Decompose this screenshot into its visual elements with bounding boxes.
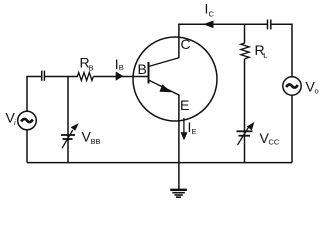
capacitor C2 (output coupling)	[268, 20, 271, 30]
battery VBB (variable)	[61, 123, 101, 148]
wire: top rail collector to capacitor C2	[178, 23, 267, 25]
transistor Q1	[133, 24, 217, 121]
source Vi	[6, 110, 37, 130]
svg-text:C: C	[181, 36, 191, 52]
svg-text:L: L	[263, 51, 267, 60]
wire: top-left horizontal to capacitor	[26, 76, 41, 78]
svg-text:B: B	[138, 61, 147, 77]
svg-text:BB: BB	[91, 137, 101, 146]
source Vo	[283, 77, 319, 96]
capacitor C1 (input coupling)	[42, 71, 45, 81]
wire: left vertical lower segment	[26, 130, 28, 163]
ground	[170, 163, 187, 198]
svg-text:C: C	[209, 10, 215, 19]
resistor RB	[77, 55, 93, 81]
resistor RL	[241, 42, 268, 60]
wire: capacitor C2 to right corner	[271, 24, 292, 77]
battery VCC (variable)	[237, 122, 280, 147]
wire: RL branch top	[244, 24, 246, 43]
svg-text:CC: CC	[269, 138, 280, 147]
wire: emitter vertical to bottom rail	[178, 95, 180, 163]
wire: VBB branch	[67, 77, 69, 163]
wire: RL to battery VCC	[244, 59, 246, 163]
current arrow IB	[115, 56, 124, 80]
svg-text:E: E	[192, 127, 197, 136]
svg-text:o: o	[315, 87, 319, 96]
wire: left vertical upper segment	[26, 77, 28, 112]
svg-text:B: B	[89, 64, 94, 73]
current arrow IE	[181, 118, 197, 140]
current arrow IC	[203, 1, 215, 29]
wire: resistor RB to transistor base	[93, 76, 148, 78]
wire: Vo to bottom rail	[291, 95, 293, 162]
wire: bottom rail	[27, 162, 292, 164]
svg-text:B: B	[119, 63, 124, 72]
wire: capacitor to resistor RB	[45, 76, 79, 78]
svg-text:E: E	[180, 97, 189, 113]
